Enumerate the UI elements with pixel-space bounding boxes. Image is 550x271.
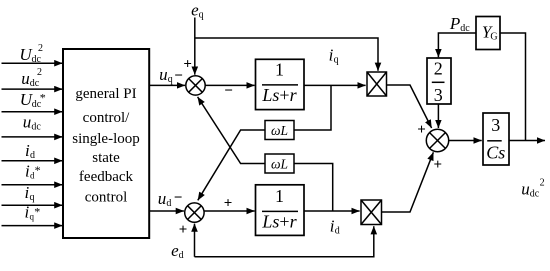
- wire input 2: [2, 88, 63, 90]
- summing junction S3 (power sum): [426, 129, 448, 151]
- sign plus at S3 lower input: [434, 157, 443, 173]
- svg-text:1: 1: [275, 60, 284, 80]
- sign minus at u_d input of S2: [174, 190, 183, 206]
- wire 2/3 output into S3: [437, 104, 439, 128]
- block U0: general PI / single-loop state feedback control: [63, 49, 149, 238]
- svg-text:P: P: [449, 14, 460, 33]
- svg-text:2: 2: [38, 43, 43, 54]
- block YG text: [482, 23, 498, 43]
- summing junction S2 (d-axis): [185, 203, 204, 222]
- block B3Cs text: [486, 115, 505, 163]
- svg-text:2: 2: [540, 178, 545, 189]
- wire W1 output diagonal to summing junction S2: [198, 130, 265, 200]
- svg-text:dc: dc: [32, 54, 42, 65]
- svg-text:general PI: general PI: [75, 86, 136, 102]
- label P_dc: [449, 14, 470, 34]
- label e_q: [191, 0, 204, 20]
- block G2 text: [261, 186, 297, 231]
- wire e_q down into S1: [194, 18, 196, 75]
- wire S3 output to block B3Cs: [449, 140, 482, 142]
- svg-text:3: 3: [434, 85, 443, 105]
- block W1 text: [271, 123, 288, 138]
- wire i_d branch up to block W2: [294, 164, 333, 212]
- block YG: [476, 17, 500, 50]
- svg-text:q: q: [199, 9, 204, 20]
- block G1 text: [261, 60, 297, 105]
- svg-text:dc: dc: [31, 122, 41, 133]
- multiplier M2 (d-axis): [361, 200, 382, 225]
- label i_q mid: [329, 45, 339, 65]
- wire W2 output diagonal to summing junction S1: [198, 97, 265, 164]
- wire M1 output diagonal to summing junction S3: [387, 85, 432, 128]
- label u_dc: [23, 113, 42, 133]
- svg-text:Cs: Cs: [486, 143, 505, 163]
- svg-text:d: d: [166, 198, 171, 209]
- label i_d^*: [25, 161, 41, 180]
- block B23: 2/3: [427, 58, 451, 104]
- wire M2 output diagonal to summing junction S3: [382, 152, 434, 212]
- svg-text:+: +: [417, 122, 426, 138]
- wire i_d from G2 to multiplier M2: [304, 210, 360, 212]
- svg-text:−: −: [224, 83, 233, 99]
- svg-text:−: −: [174, 68, 183, 84]
- wire feedback up to block YG: [500, 33, 526, 141]
- svg-text:*: *: [40, 91, 46, 105]
- label i_d: [25, 141, 35, 161]
- svg-text:dc: dc: [530, 189, 540, 200]
- wire input 8: [2, 225, 63, 227]
- sign plus at S3 upper input: [417, 122, 426, 138]
- svg-text:control: control: [85, 190, 128, 206]
- wire e_q branch to multiplier M1: [195, 38, 378, 71]
- svg-text:dc: dc: [460, 23, 470, 34]
- sign plus at e_q input of S1: [183, 56, 192, 72]
- block G2: 1/(Ls+r) lower: [256, 185, 305, 236]
- wire input 1: [2, 62, 63, 64]
- svg-text:u: u: [21, 69, 30, 88]
- svg-text:*: *: [34, 204, 40, 218]
- svg-text:+: +: [224, 196, 233, 212]
- wire input 7: [2, 204, 63, 206]
- label i_q^*: [25, 203, 41, 222]
- label i_q: [25, 183, 35, 203]
- svg-text:feedback: feedback: [79, 169, 134, 185]
- svg-text:state: state: [92, 150, 120, 166]
- svg-text:G: G: [490, 32, 497, 43]
- wire S1 output to block G1: [205, 84, 254, 86]
- wire e_d up into S2: [194, 224, 196, 257]
- svg-text:d: d: [335, 225, 340, 236]
- svg-text:3: 3: [491, 115, 500, 135]
- label u_q: [159, 65, 173, 85]
- multiplier M1 (q-axis): [367, 72, 387, 96]
- wire input 5: [2, 160, 63, 162]
- label u_dc^2: [21, 67, 42, 89]
- svg-text:u: u: [23, 113, 32, 132]
- svg-text:*: *: [35, 163, 41, 177]
- svg-text:+: +: [179, 222, 188, 238]
- svg-text:d: d: [179, 250, 184, 261]
- label i_d mid: [330, 216, 340, 236]
- block U0 text: [72, 86, 140, 206]
- svg-text:q: q: [168, 74, 173, 85]
- svg-text:2: 2: [434, 59, 443, 79]
- wire e_d branch to multiplier M2: [195, 226, 374, 257]
- wire u_q from block U0 to summing junction S1: [149, 84, 185, 86]
- label u_d: [158, 189, 172, 209]
- svg-text:d: d: [30, 150, 35, 161]
- wire u_d from block U0 to summing junction S2: [149, 210, 184, 212]
- svg-text:1: 1: [275, 186, 284, 206]
- block B23 text: [434, 59, 443, 106]
- block W2: omega-L lower: [265, 154, 294, 173]
- label U_dc^*: [20, 90, 46, 110]
- sign plus after S2: [224, 196, 233, 212]
- sign plus at e_d input of S2: [179, 222, 188, 238]
- sign minus at u_q input of S1: [174, 68, 183, 84]
- summing junction S1 (q-axis): [186, 76, 205, 95]
- svg-text:u: u: [158, 189, 167, 208]
- label U_dc^2: [19, 43, 43, 65]
- wire S2 output to block G2: [204, 210, 255, 212]
- svg-text:q: q: [30, 192, 35, 203]
- svg-text:Ls+r: Ls+r: [261, 211, 297, 231]
- block W2 text: [271, 156, 288, 171]
- svg-text:single-loop: single-loop: [72, 131, 140, 147]
- wire input 4: [2, 136, 63, 138]
- label u_dc^2 output: [521, 178, 544, 200]
- svg-text:+: +: [434, 157, 443, 173]
- svg-text:Ls+r: Ls+r: [261, 85, 297, 105]
- wire input 6: [2, 184, 63, 186]
- svg-text:2: 2: [37, 67, 42, 78]
- svg-text:control/: control/: [83, 110, 130, 126]
- block G1: 1/(Ls+r) upper: [256, 59, 305, 109]
- wire P_dc from YG into 2/3: [438, 33, 476, 57]
- svg-text:u: u: [159, 65, 168, 84]
- block W1: omega-L upper: [265, 121, 294, 140]
- svg-text:ωL: ωL: [271, 123, 288, 138]
- sign minus after S1: [224, 83, 233, 99]
- wire i_q branch down to block W1: [294, 85, 331, 130]
- wire output u_dc^2: [509, 140, 545, 142]
- label e_d: [171, 241, 184, 261]
- wire i_q from G1 to multiplier M1: [304, 84, 366, 86]
- svg-text:ωL: ωL: [271, 156, 288, 171]
- svg-text:+: +: [183, 56, 192, 72]
- svg-text:−: −: [174, 190, 183, 206]
- svg-text:dc: dc: [30, 78, 40, 89]
- svg-text:u: u: [521, 180, 530, 199]
- block B3Cs: 3/Cs: [483, 113, 509, 165]
- wire input 3: [2, 111, 63, 113]
- svg-text:q: q: [334, 54, 339, 65]
